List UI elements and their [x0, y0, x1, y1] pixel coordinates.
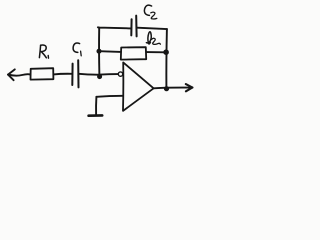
- inverting input bubble: [118, 72, 122, 76]
- wire: right feedback vertical: [165, 29, 168, 88]
- output arrowhead: [186, 84, 193, 91]
- ground: [89, 97, 103, 116]
- junction dot rail2 right: [163, 49, 169, 55]
- label R1: [39, 45, 48, 58]
- resistor R2: [121, 47, 146, 59]
- label C1: [73, 43, 81, 56]
- wire node A to op-amp inverting input: [101, 73, 119, 76]
- op-amp U1: [123, 62, 154, 111]
- resistor R1: [31, 68, 54, 79]
- label R2: [146, 32, 160, 45]
- wire C1 to node A: [79, 73, 99, 76]
- capacitor C1: [72, 60, 78, 87]
- node A (junction dot): [97, 74, 102, 79]
- wire: top rail left segment: [98, 27, 131, 28]
- wire: top rail right segment: [137, 28, 167, 29]
- capacitor C2: [131, 16, 136, 37]
- wire: output: [154, 87, 190, 90]
- input arrow (left terminal): [8, 69, 31, 80]
- wire: rail2 left segment (node to R2): [99, 50, 121, 53]
- wire: non-inverting input: [96, 96, 122, 97]
- wire: rail2 right segment (R2 to right vertical): [146, 51, 165, 53]
- junction dot rail2 left: [97, 49, 102, 54]
- label C2: [144, 5, 156, 19]
- wire R1 to C1: [53, 73, 71, 76]
- junction dot output: [164, 86, 169, 91]
- wire: left feedback vertical: [98, 28, 100, 76]
